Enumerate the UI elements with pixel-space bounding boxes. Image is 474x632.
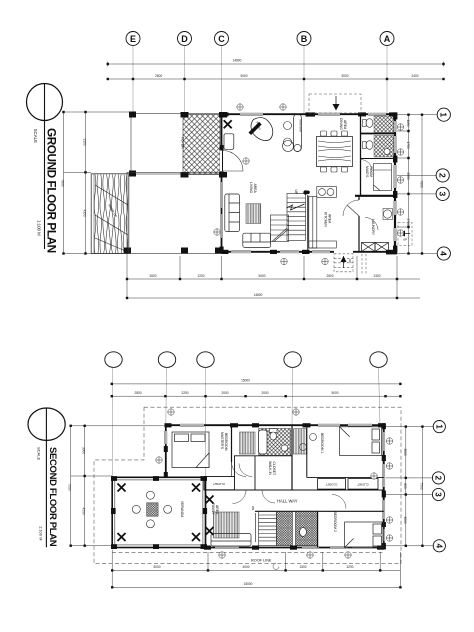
ramp wavy hatch [94,175,128,254]
svg-text:VERANDA: VERANDA [180,501,184,518]
svg-text:CLOSET: CLOSET [357,483,369,487]
kitchen divider wall [307,195,309,251]
2F right dimension lines [386,427,434,546]
closet row wall [204,489,384,491]
svg-text:5000: 5000 [331,391,338,395]
svg-text:1: 1 [434,424,443,429]
2F outer wall right [383,424,385,548]
svg-text:4: 4 [434,544,443,549]
grid leader lines top [133,46,387,114]
interior wall bath divider [361,133,395,135]
bedroom2 bed [345,522,384,548]
bedroom1 closet box1 [318,479,346,490]
2F left wall window [165,431,168,444]
GF side exit dashed [398,223,412,246]
2F stair arrow [255,513,257,542]
family area rug [214,512,240,538]
svg-text:800: 800 [403,483,407,489]
svg-text:HALL WAY: HALL WAY [277,499,298,504]
2F left wall poche [164,446,168,478]
living sofa long [225,194,240,232]
stair lower flight [271,215,289,242]
svg-text:2400: 2400 [373,274,380,278]
svg-text:3: 3 [438,192,448,197]
2F bath B hatch [296,511,318,545]
svg-text:2600: 2600 [149,274,156,278]
GF wall right windows [394,121,397,241]
GF bath2 sink [384,149,390,155]
2F bottom wall poche [204,546,385,550]
entry X mark [224,120,232,128]
carport outline [127,172,222,253]
2F outer wall top [166,424,385,426]
GF bath1 hatch [374,116,394,133]
svg-text:CLOSET: CLOSET [272,462,276,476]
entry cabinet [224,134,234,150]
veranda planter [147,503,159,516]
svg-text:1500: 1500 [299,565,306,569]
svg-text:LIVING: LIVING [249,182,253,193]
terrace E-D outline [131,114,222,175]
2F bath A tub [259,430,267,454]
GF wall bottom poche [222,250,398,255]
hall lower wall [255,510,384,512]
GF oplus symbols [237,104,243,110]
svg-text:15000: 15000 [244,582,253,586]
svg-text:SCALE: SCALE [37,447,42,460]
2F bath A sink [281,445,287,451]
washing machines [362,243,389,252]
hall door arc2 [262,490,275,503]
svg-text:CLOSET: CLOSET [326,483,338,487]
2F bath B toilet [300,528,307,537]
svg-text:GROUND FLOOR PLAN: GROUND FLOOR PLAN [45,128,59,253]
svg-text:4350: 4350 [83,209,87,216]
2F roof outline dashed [94,407,401,564]
terrace columns [129,112,136,177]
balcony overhang dashed [309,94,361,113]
master closet box [204,477,235,490]
2F bottom segment dimension [112,550,400,588]
bar stools [284,122,292,130]
hall door arc [233,490,247,504]
2F top wall windows [180,424,372,427]
laundry door2 arc [365,217,378,230]
svg-text:3290: 3290 [346,565,353,569]
GF exit up arrow bottom [341,256,353,268]
GF bath2 toilet [363,141,373,150]
2F right wall windows [382,432,385,541]
grid bubble B [297,32,311,46]
2F grid bubbles top [105,352,387,368]
interior wall maid rooms left [360,115,362,196]
GF main outer wall right [394,113,396,252]
2F wardrobe stripes right [294,429,307,454]
laundry sink [383,210,391,218]
svg-text:3000: 3000 [403,448,407,455]
veranda walls [112,477,205,547]
svg-text:AREA: AREA [328,214,332,224]
svg-text:4000: 4000 [242,565,249,569]
svg-text:SCALE: SCALE [33,129,38,143]
bedroom1 closet box2 [348,479,378,490]
GF wall top windows [240,113,386,116]
svg-text:A: A [384,34,391,44]
GF wall top poche [222,112,398,116]
svg-text:4500: 4500 [82,507,86,514]
mini bar counter [294,114,302,152]
svg-text:KITCHEN: KITCHEN [324,212,328,227]
living sofa small [243,233,271,247]
svg-text:WALK-IN: WALK-IN [268,461,272,476]
svg-text:1700: 1700 [406,141,410,148]
GF bath2 hatch [374,136,394,158]
grid bubble C [215,32,229,46]
svg-text:5000: 5000 [258,274,265,278]
wall bath/bed1 [291,425,293,490]
svg-text:5000: 5000 [153,565,160,569]
walkin wall left [234,456,236,477]
svg-text:3000: 3000 [82,447,86,454]
left outer dimension line 7800 [64,112,130,254]
2F roof edge dashed bottom [112,551,385,553]
right dimension lines [397,115,437,254]
svg-text:1: 1 [439,112,449,117]
svg-text:2250: 2250 [181,391,188,395]
2F row bubble 1 [433,421,445,433]
svg-text:7500: 7500 [68,483,72,490]
grid bubble A [380,32,394,46]
svg-text:MINI-BAR: MINI-BAR [299,120,303,133]
2F oplus symbols [386,438,392,444]
2F row bubble 4 [433,540,445,552]
2F outer wall bottom [204,547,385,549]
laundry door gap [358,200,361,216]
walkin wall right [254,456,256,490]
svg-text:FOYER: FOYER [181,137,185,149]
2F right wall poche [382,423,386,549]
dining chairs bottom [321,167,348,172]
GF wall left poche [220,145,224,253]
svg-text:E: E [130,34,136,44]
2F top wall poche [165,423,386,427]
grid bubble E [126,32,140,46]
living round table [283,141,294,152]
2F outer wall left (master) [165,424,167,478]
svg-text:3150: 3150 [83,138,87,145]
kitchen counter bottom [309,241,337,248]
svg-text:BEDROOM 1: BEDROOM 1 [320,433,324,453]
svg-text:7800: 7800 [419,180,423,187]
row3 wall laundry top [355,195,397,197]
svg-text:LAUNDRY: LAUNDRY [371,219,375,236]
GF wall left door gap [220,150,223,171]
GF bath1 toilet [363,119,373,128]
maid room bed [374,164,392,191]
svg-text:5000: 5000 [240,74,247,78]
second floor title bubble [28,408,65,547]
2F bottom wall windows [215,546,372,549]
ramp enclosure [91,174,129,254]
svg-text:C: C [218,34,225,44]
svg-text:1:100 M: 1:100 M [37,220,42,236]
row bubble 1 [437,108,450,121]
veranda chairs [146,491,154,499]
2F wardrobe stripes left [240,432,256,454]
GF side exit arrow [399,231,410,242]
2F bath A hatch [259,429,291,456]
svg-text:3000: 3000 [403,516,407,523]
svg-text:BEDROOM: BEDROOM [224,433,228,451]
svg-text:14800: 14800 [254,293,263,297]
GF exit stair bottom dashed [334,254,366,275]
2F row bubble 3 [432,488,444,500]
svg-text:FAMILY: FAMILY [211,503,215,516]
svg-text:2600: 2600 [326,274,333,278]
svg-text:MASTER'S: MASTER'S [220,432,224,450]
roof line pointer [273,564,279,570]
kitchen counter right [309,197,317,249]
bottom segment dimension line [127,254,420,299]
carport columns [124,248,222,254]
balcony up arrow [333,96,340,111]
row bubble 4 [437,247,450,260]
ground floor title bubble [27,84,63,250]
svg-text:3: 3 [434,492,443,497]
svg-text:B: B [301,34,308,44]
svg-text:BEDROOM 2: BEDROOM 2 [333,512,337,532]
grid bubble D [178,32,192,46]
wall master/bath [231,425,233,462]
foyer hatch [183,115,220,175]
svg-text:ROOM: ROOM [369,167,373,178]
family area sofa [211,534,251,547]
2F bath A toilet [270,429,278,440]
svg-text:2000: 2000 [221,391,228,395]
svg-text:5000: 5000 [341,74,348,78]
svg-text:DN: DN [251,506,255,510]
bedroom1 bed [340,427,382,456]
top total dimension line 14800 [108,62,444,67]
bedroom2 door arc [332,495,346,509]
dining chairs top [321,131,348,136]
svg-text:SECOND FLOOR PLAN: SECOND FLOOR PLAN [47,447,58,547]
2F bottom total dimension 15000 [112,586,400,588]
svg-text:1:100 M: 1:100 M [39,526,44,540]
walkin door arc [239,464,252,477]
row bubble 3 [436,187,449,200]
2F grid leaders top [112,367,380,477]
foyer columns [181,112,228,178]
svg-text:ROOF LINE: ROOF LINE [251,559,272,563]
stair GF [287,194,306,241]
svg-text:2600: 2600 [155,74,162,78]
2F top segment dimension [112,395,401,397]
2F top total dimension 15000 [112,383,401,385]
svg-text:UP: UP [348,259,352,263]
svg-text:AREA: AREA [215,505,219,515]
svg-text:2200: 2200 [197,274,204,278]
svg-text:MAID'S: MAID'S [365,166,369,178]
GF main outer wall top [222,113,398,115]
svg-text:1100: 1100 [406,120,410,127]
GF main outer wall left [221,113,223,252]
piano [249,118,273,141]
GF main outer wall bottom [222,251,398,253]
2F stairs left flight [259,511,277,545]
top segment dimension line [108,78,444,80]
svg-text:CLOSET: CLOSET [213,482,225,486]
living rug hatch [246,204,261,224]
svg-text:7500: 7500 [420,482,424,489]
GF wall left windows [220,182,223,238]
laundry left wall [358,196,360,251]
svg-text:2500: 2500 [406,172,410,179]
svg-text:4: 4 [439,251,449,256]
laundry door arc [343,200,359,216]
master bedroom bed [172,432,209,468]
svg-text:2400: 2400 [411,74,418,78]
svg-text:2: 2 [438,173,448,178]
maid door arc [361,160,373,172]
kitchen island sink [317,187,337,198]
wall bath B / bedroom2 [317,511,319,547]
svg-text:2: 2 [434,476,443,481]
bottom total dimension line 14800 [127,297,420,299]
svg-text:UP: UP [294,190,298,195]
veranda corner poche [111,476,207,549]
svg-text:15000: 15000 [241,378,250,382]
master door arc [232,462,247,477]
dining table [317,137,353,167]
svg-text:AREA: AREA [253,184,257,194]
2F left dimension lines [71,426,165,546]
svg-text:7800: 7800 [61,179,65,186]
interior wall bath2 bottom [361,158,395,160]
svg-text:2700: 2700 [406,218,410,225]
svg-text:UP: UP [403,238,407,242]
svg-text:AREA: AREA [343,120,347,130]
svg-text:2800: 2800 [134,391,141,395]
GF wall right poche [393,112,397,252]
family area left wall [205,477,207,547]
veranda X marks [118,484,126,492]
svg-text:2000: 2000 [261,391,268,395]
closet row wall upper [307,476,384,478]
svg-text:DINING: DINING [339,118,343,130]
row bubble 2 [436,169,449,182]
walkin wall bottom [234,455,292,457]
svg-text:D: D [181,34,188,44]
stair newel dot [303,190,307,194]
2F stairs right flight hatched [277,511,293,545]
foyer entry door arc [223,151,244,172]
GF bottom exit door gap [334,250,353,254]
bedroom1 deco circles [310,434,317,441]
svg-text:14800: 14800 [233,59,242,63]
wall bed1 left lower [306,425,308,477]
GF wall bottom windows [231,251,330,254]
stair break line [287,204,305,210]
2F row bubble 2 [432,472,444,484]
